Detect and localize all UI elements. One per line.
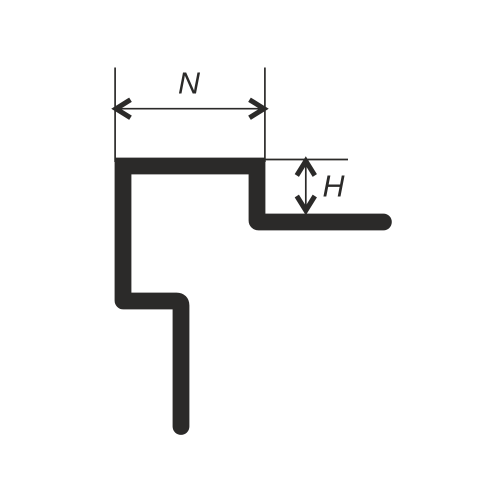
arrowhead N left — [116, 100, 131, 118]
extension line left (N dimension) — [114, 68, 116, 163]
arrowhead H bottom — [297, 196, 315, 211]
arrowhead N right — [250, 100, 265, 118]
extension line right (N dimension) — [264, 68, 266, 163]
svg-text:N: N — [178, 66, 201, 100]
dimension line H — [305, 161, 307, 211]
profile body (thick cross-section outline) — [123, 166, 383, 427]
svg-text:H: H — [323, 170, 346, 204]
extension line top (H dimension) — [263, 159, 348, 161]
arrowhead H top — [297, 161, 315, 176]
dimension line N — [116, 108, 264, 110]
